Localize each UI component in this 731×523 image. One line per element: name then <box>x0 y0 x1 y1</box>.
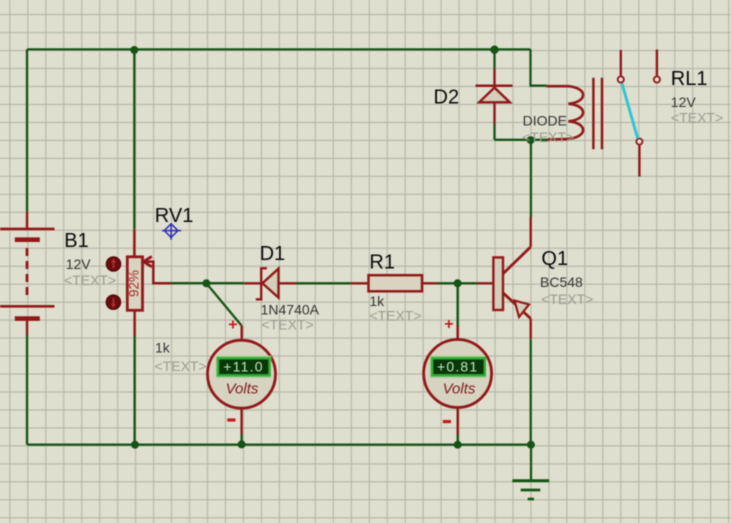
svg-text:DIODE: DIODE <box>523 112 567 128</box>
pin relay coil bottom <box>548 138 568 140</box>
pin battery bottom <box>26 321 28 336</box>
wire D2 to coil bottom node <box>495 139 549 141</box>
diode D2 <box>476 86 513 103</box>
wire top rail to D2 cathode <box>493 50 495 69</box>
svg-text:Q1: Q1 <box>541 248 568 270</box>
voltmeter VM2 <box>424 316 492 423</box>
svg-text:<TEXT>: <TEXT> <box>64 272 116 288</box>
relay RL1 contact circles <box>618 76 660 144</box>
pin VM1 minus <box>240 408 242 435</box>
wire top rail elbow to relay coil top <box>531 49 547 85</box>
junction rail / RV1 bottom <box>131 441 139 449</box>
wire top rail <box>27 48 531 50</box>
svg-text:+: + <box>444 316 453 333</box>
junction rail / VM1 minus <box>238 440 246 448</box>
current probe dot up <box>106 257 121 272</box>
svg-text:<TEXT>: <TEXT> <box>671 110 723 126</box>
relay RL1 core <box>593 78 602 150</box>
wire rail to ground <box>530 445 532 481</box>
svg-text:1k: 1k <box>155 339 171 355</box>
relay RL1 coil <box>547 86 583 139</box>
svg-text:D2: D2 <box>434 86 460 108</box>
junction D2 / coil / collector <box>527 136 535 144</box>
svg-text:<TEXT>: <TEXT> <box>522 129 574 145</box>
svg-text:D1: D1 <box>260 243 286 265</box>
pin relay coil top <box>547 85 569 87</box>
svg-text:B1: B1 <box>64 230 88 252</box>
wire VM1 minus to rail <box>240 435 242 445</box>
pin Q1 base <box>477 282 493 284</box>
pin relay common <box>638 146 640 177</box>
svg-text:RL1: RL1 <box>671 68 708 90</box>
svg-text:12V: 12V <box>66 256 92 272</box>
svg-text:+11.0: +11.0 <box>223 359 263 375</box>
pin relay contact NC <box>656 50 658 76</box>
relay RL1 armature <box>622 84 638 139</box>
current probe dot down <box>106 295 121 310</box>
svg-text:1N4740A: 1N4740A <box>261 301 320 317</box>
label origin marker RV1 <box>162 223 181 239</box>
pin D1 cathode <box>279 282 297 284</box>
svg-text:Volts: Volts <box>443 381 476 398</box>
wire battery bottom to rail <box>26 335 28 445</box>
svg-text:<TEXT>: <TEXT> <box>155 358 207 374</box>
pin R1 left <box>351 282 369 284</box>
pin battery top <box>26 212 28 229</box>
pin VM1 plus <box>240 326 242 342</box>
wire RV1 wiper to D1 <box>171 282 244 284</box>
wire Q1 emitter to rail <box>530 339 532 445</box>
svg-text:+0.81: +0.81 <box>437 359 478 375</box>
resistor R1 <box>369 275 423 291</box>
wire node to voltmeter VM1 plus <box>206 283 241 325</box>
wire node to Q1 collector <box>530 140 532 217</box>
junction top rail / RV1 <box>130 46 138 54</box>
pin VM2 minus <box>457 407 459 435</box>
svg-text:BC548: BC548 <box>540 274 583 290</box>
junction R1 / base / VM2 <box>454 279 462 287</box>
pin R1 right <box>422 282 437 284</box>
junction rail / VM2 minus <box>454 441 462 449</box>
svg-text:+: + <box>228 317 237 334</box>
transistor Q1 <box>493 247 530 319</box>
potentiometer RV1 <box>126 256 171 310</box>
wire VM2 minus to rail <box>457 435 459 445</box>
zener diode D1 <box>256 268 279 299</box>
pin Q1 collector <box>530 217 532 247</box>
voltmeter VM1 <box>208 317 276 422</box>
svg-text:RV1: RV1 <box>155 205 194 227</box>
svg-text:12V: 12V <box>671 94 697 110</box>
svg-text:92%: 92% <box>126 270 141 297</box>
pin RV1 bottom <box>133 310 135 336</box>
svg-text:R1: R1 <box>369 252 395 274</box>
wire D2 anode down <box>493 124 495 140</box>
wire left vertical to battery <box>26 49 28 211</box>
svg-text:Volts: Volts <box>226 381 259 398</box>
svg-text:<TEXT>: <TEXT> <box>262 317 314 333</box>
junction wiper / D1 / VM1 <box>202 279 210 287</box>
pin relay contact NO <box>620 50 622 76</box>
ground <box>512 481 549 499</box>
junction rail / emitter / ground <box>527 441 535 449</box>
wire RV1 bottom to rail <box>133 336 135 445</box>
wire D1 to R1 <box>296 282 351 284</box>
wire R1 to Q1 base <box>437 282 477 284</box>
pin VM2 plus <box>456 326 458 341</box>
pin D1 anode <box>244 282 261 284</box>
battery B1 <box>0 229 55 319</box>
wire bottom ground rail <box>27 443 531 445</box>
junction top rail / D2 <box>490 46 498 54</box>
svg-text:<TEXT>: <TEXT> <box>369 307 421 323</box>
pin Q1 emitter <box>530 319 532 339</box>
wire node to voltmeter VM2 plus <box>456 283 458 325</box>
pin D2 cathode <box>493 69 495 86</box>
pin RV1 top <box>133 229 135 257</box>
svg-text:<TEXT>: <TEXT> <box>541 291 593 307</box>
pin D2 anode <box>493 103 495 125</box>
wire top rail to RV1 <box>133 49 135 228</box>
